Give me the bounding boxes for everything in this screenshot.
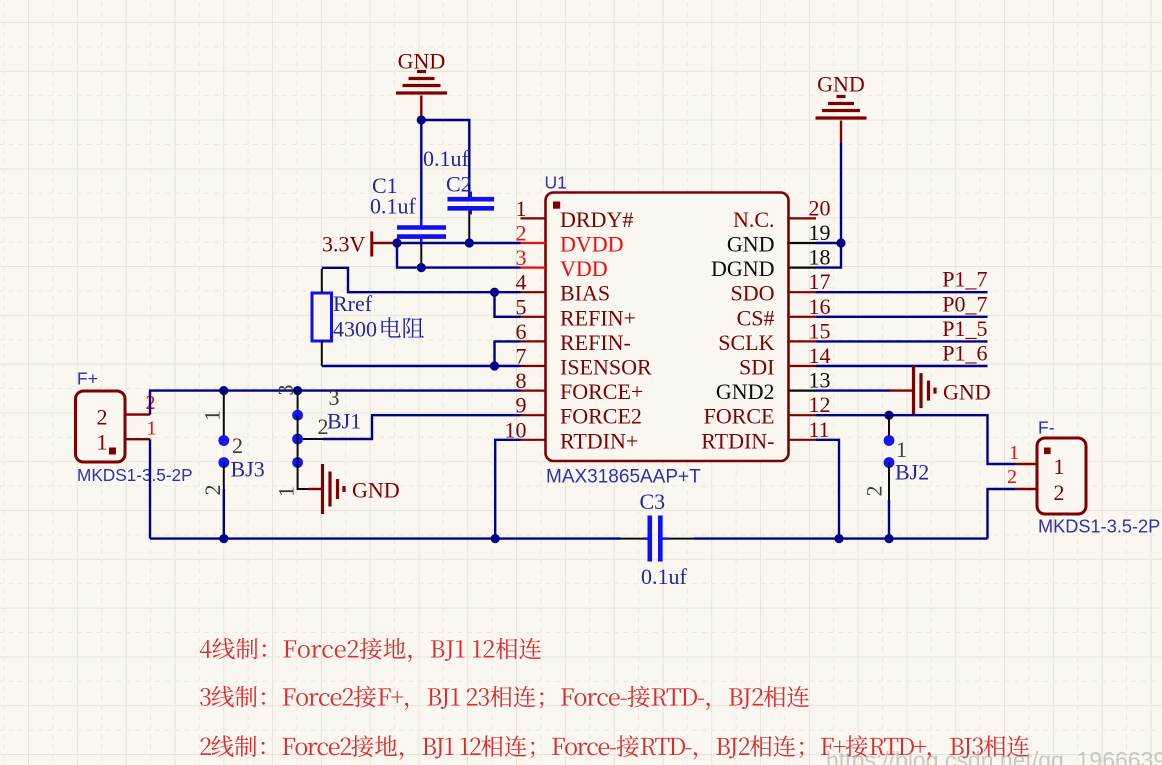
junction pin11/bottom rail bbox=[834, 534, 843, 543]
U1 pin 10 RTDIN+ bbox=[505, 417, 639, 453]
junction BJ1 top bbox=[293, 386, 302, 395]
U1 pin 17 SDO bbox=[730, 269, 830, 306]
svg-text:3: 3 bbox=[329, 385, 340, 410]
svg-text:DVDD: DVDD bbox=[560, 232, 624, 257]
power port 3.3V bbox=[322, 231, 394, 256]
BJ2 pin number 1 bbox=[896, 437, 907, 462]
net label P1_6 bbox=[942, 341, 987, 366]
svg-text:2: 2 bbox=[1054, 480, 1065, 505]
wire pin 16 to net P0_7 bbox=[816, 316, 988, 318]
connector F+ MKDS1-3.5-2P bbox=[76, 391, 151, 462]
wire branch to pin 3 VDD bbox=[397, 243, 521, 268]
U1 pin 7 ISENSOR bbox=[516, 344, 653, 380]
U1 pin 2 DVDD bbox=[516, 221, 624, 257]
junction pin 19 GND bbox=[836, 238, 845, 247]
F- pin number 2 bbox=[1007, 466, 1017, 488]
op-amp/converter IC U1 MAX31865AAP+T body bbox=[546, 193, 789, 462]
svg-text:6: 6 bbox=[516, 319, 527, 344]
svg-text:REFIN+: REFIN+ bbox=[560, 305, 636, 330]
BJ1 pin number 2 bbox=[318, 414, 329, 439]
U1 pin 5 REFIN+ bbox=[516, 294, 636, 330]
svg-text:12: 12 bbox=[809, 392, 831, 417]
svg-text:SDI: SDI bbox=[739, 355, 774, 380]
svg-text:0.1uf: 0.1uf bbox=[641, 564, 688, 589]
svg-text:1: 1 bbox=[97, 430, 108, 455]
watermark csdn blog bbox=[826, 747, 1162, 765]
wire F+ pin2 to FORCE+ pin 8 bbox=[150, 391, 521, 415]
F+ pin number 1 bbox=[147, 418, 157, 440]
svg-text:GND: GND bbox=[352, 478, 400, 503]
svg-text:3: 3 bbox=[273, 385, 298, 396]
svg-text:FORCE+: FORCE+ bbox=[560, 379, 643, 404]
svg-text:1: 1 bbox=[896, 437, 907, 462]
svg-text:C3: C3 bbox=[640, 489, 666, 514]
resistor Rref 4300 bbox=[312, 269, 373, 366]
svg-text:VDD: VDD bbox=[560, 256, 608, 281]
svg-text:GND: GND bbox=[727, 232, 775, 257]
U1 pin 16 CS# bbox=[737, 294, 831, 331]
wire branch to REFIN+ pin 5 bbox=[495, 292, 521, 317]
junction BJ3 bottom rail bbox=[219, 534, 228, 543]
junction C2 bottom bbox=[465, 238, 474, 247]
junction BJ3 top bbox=[219, 386, 228, 395]
wire pin 11 RTDIN- to bottom rail bbox=[816, 440, 839, 539]
svg-text:CS#: CS# bbox=[737, 305, 775, 330]
note line 1: 4-wire config bbox=[200, 638, 541, 662]
svg-text:2: 2 bbox=[200, 485, 225, 496]
ground symbol GND at pin 13 bbox=[914, 366, 991, 416]
svg-text:MKDS1-3.5-2P: MKDS1-3.5-2P bbox=[77, 465, 193, 485]
svg-text:8: 8 bbox=[516, 368, 527, 393]
wire Rref bottom to ISENSOR pin 7 bbox=[322, 365, 521, 367]
svg-text:1: 1 bbox=[1009, 442, 1019, 464]
note line 2: 3-wire config bbox=[200, 686, 809, 710]
U1 pin 11 RTDIN- bbox=[701, 417, 829, 454]
svg-text:1: 1 bbox=[1054, 454, 1065, 479]
svg-text:15: 15 bbox=[809, 318, 831, 343]
svg-text:https://blog.csdn.net/qq_19666: https://blog.csdn.net/qq_1966639 bbox=[826, 747, 1162, 765]
wire BJ1 middle to FORCE2 pin 9 bbox=[303, 415, 521, 439]
svg-text:0.1uf: 0.1uf bbox=[370, 194, 417, 219]
note line 3: 2-wire config bbox=[201, 735, 1030, 759]
svg-text:F+: F+ bbox=[77, 369, 98, 389]
designator BJ3 bbox=[231, 457, 265, 482]
wire F+ pin1 down to bottom rail bbox=[149, 439, 151, 538]
svg-text:RTDIN+: RTDIN+ bbox=[560, 428, 638, 453]
svg-text:U1: U1 bbox=[545, 173, 567, 193]
svg-text:2: 2 bbox=[1007, 466, 1017, 488]
BJ1 pin number 1 (rotated) bbox=[273, 486, 298, 497]
BJ3 pin number 2 bbox=[232, 433, 243, 458]
svg-text:13: 13 bbox=[809, 368, 831, 393]
svg-text:N.C.: N.C. bbox=[733, 207, 775, 232]
svg-text:2: 2 bbox=[516, 221, 527, 246]
svg-text:FORCE2: FORCE2 bbox=[560, 404, 642, 429]
svg-text:RTDIN-: RTDIN- bbox=[701, 428, 774, 453]
svg-text:18: 18 bbox=[809, 245, 831, 270]
svg-text:19: 19 bbox=[809, 220, 831, 245]
U1 pin 19 GND bbox=[727, 220, 831, 257]
designator F+ bbox=[77, 369, 98, 389]
BJ1 pin number 3 (rotated) bbox=[273, 385, 298, 396]
wire BJ2 to bottom rail bbox=[888, 500, 890, 539]
U1 pin 13 GND2 bbox=[716, 368, 831, 405]
svg-text:9: 9 bbox=[516, 393, 527, 418]
svg-text:ISENSOR: ISENSOR bbox=[560, 355, 652, 380]
part number MAX31865AAP+T bbox=[546, 467, 701, 488]
svg-text:GND: GND bbox=[817, 72, 865, 97]
U1 pin 1 DRDY# bbox=[516, 196, 634, 232]
svg-text:MKDS1-3.5-2P: MKDS1-3.5-2P bbox=[1038, 517, 1160, 537]
svg-text:SDO: SDO bbox=[730, 281, 774, 306]
junction 3.3V tee bbox=[392, 238, 401, 247]
part label MKDS1-3.5-2P (right) bbox=[1038, 517, 1160, 537]
net label P1_5 bbox=[942, 316, 987, 341]
wire pin 13 GND2 to ground bbox=[816, 389, 912, 391]
svg-text:GND2: GND2 bbox=[716, 379, 775, 404]
svg-text:GND: GND bbox=[943, 380, 991, 405]
designator BJ1 bbox=[327, 409, 361, 434]
svg-text:0.1uf: 0.1uf bbox=[423, 146, 470, 171]
U1 pin 18 DGND bbox=[711, 245, 831, 282]
connector F- MKDS1-3.5-2P bbox=[1015, 438, 1086, 514]
svg-text:10: 10 bbox=[505, 417, 527, 442]
capacitor C3 0.1uf bbox=[621, 489, 695, 589]
ground symbol GND top-right bbox=[816, 72, 867, 119]
svg-text:1: 1 bbox=[273, 486, 298, 497]
svg-text:MAX31865AAP+T: MAX31865AAP+T bbox=[546, 467, 701, 488]
BJ1 pin number 3 bbox=[329, 385, 340, 410]
svg-text:REFIN-: REFIN- bbox=[560, 330, 631, 355]
svg-text:DRDY#: DRDY# bbox=[560, 207, 633, 232]
wire pin 15 to net P1_5 bbox=[816, 340, 988, 342]
wire F- pin 2 to bottom rail bbox=[988, 489, 1016, 539]
wire pin 14 to net P1_6 bbox=[816, 365, 988, 367]
svg-text:P1_7: P1_7 bbox=[942, 267, 987, 292]
bottom rail wire RTDIN+ bbox=[150, 537, 988, 539]
svg-text:F-: F- bbox=[1038, 418, 1055, 438]
U1 pin 4 BIAS bbox=[516, 270, 611, 306]
svg-text:2: 2 bbox=[862, 486, 887, 497]
svg-text:BJ2: BJ2 bbox=[895, 460, 929, 485]
svg-text:2: 2 bbox=[232, 433, 243, 458]
svg-text:7: 7 bbox=[516, 344, 527, 369]
svg-text:P0_7: P0_7 bbox=[942, 291, 987, 316]
svg-text:1: 1 bbox=[199, 410, 224, 421]
svg-text:C2: C2 bbox=[446, 172, 472, 197]
U1 pin 14 SDI bbox=[739, 343, 830, 380]
svg-text:5: 5 bbox=[516, 294, 527, 319]
part label MKDS1-3.5-2P (left) bbox=[77, 465, 193, 485]
jumper BJ3 bbox=[218, 391, 229, 489]
svg-text:17: 17 bbox=[809, 269, 831, 294]
wire pin 12 FORCE to F- pin 1 bbox=[816, 415, 1015, 464]
wire branch to REFIN- pin 6 bbox=[495, 341, 521, 366]
junction BIAS/REFIN+ bbox=[490, 288, 499, 297]
svg-text:1: 1 bbox=[147, 418, 157, 440]
svg-text:BJ1: BJ1 bbox=[327, 409, 361, 434]
junction C1 bottom bbox=[417, 263, 426, 272]
svg-text:BIAS: BIAS bbox=[560, 281, 610, 306]
svg-text:Rref: Rref bbox=[333, 291, 373, 316]
svg-text:4: 4 bbox=[516, 270, 527, 295]
F- pin number 1 bbox=[1009, 442, 1019, 464]
value label 4300 (electric resistance) bbox=[333, 317, 424, 342]
wire BJ3 to bottom rail bbox=[223, 489, 225, 539]
U1 pin 6 REFIN- bbox=[516, 319, 631, 355]
junction BJ2 top bbox=[884, 411, 893, 420]
capacitor C2 0.1uf bbox=[421, 120, 494, 243]
U1 pin 8 FORCE+ bbox=[516, 368, 644, 404]
wire pin 17 to net P1_7 bbox=[816, 291, 988, 293]
svg-text:GND: GND bbox=[398, 48, 446, 73]
junction REFIN-/ISENSOR bbox=[490, 361, 499, 370]
svg-text:20: 20 bbox=[809, 195, 831, 220]
net label P1_7 bbox=[942, 267, 987, 292]
designator F- bbox=[1038, 418, 1055, 438]
U1 pin 12 FORCE bbox=[704, 392, 831, 429]
U1 pin 9 FORCE2 bbox=[516, 393, 642, 429]
svg-text:14: 14 bbox=[809, 343, 831, 368]
svg-text:P1_6: P1_6 bbox=[942, 341, 987, 366]
BJ3 pin number 1 (rotated) bbox=[199, 410, 224, 421]
junction C1/C2 ground node bbox=[417, 115, 426, 124]
svg-text:11: 11 bbox=[809, 417, 830, 442]
svg-text:BJ3: BJ3 bbox=[231, 457, 265, 482]
designator BJ2 bbox=[895, 460, 929, 485]
U1 pin 15 SCLK bbox=[718, 318, 830, 355]
svg-text:3.3V: 3.3V bbox=[322, 232, 366, 257]
BJ2 rotated 2 bbox=[862, 486, 887, 497]
BJ3 rotated 2 bbox=[200, 485, 225, 496]
ground symbol GND top-left bbox=[396, 48, 447, 93]
wire 3.3V to pin 2 DVDD bbox=[394, 242, 521, 244]
svg-text:4300: 4300 bbox=[333, 317, 377, 342]
junction pin10/bottom rail bbox=[491, 534, 500, 543]
svg-text:16: 16 bbox=[809, 294, 831, 319]
capacitor C1 0.1uf bbox=[370, 120, 446, 268]
net label P0_7 bbox=[942, 291, 987, 316]
svg-text:3: 3 bbox=[516, 245, 527, 270]
svg-text:SCLK: SCLK bbox=[718, 330, 774, 355]
svg-text:DGND: DGND bbox=[711, 256, 775, 281]
U1 pin 3 VDD bbox=[516, 245, 608, 281]
F+ pin number 2 bbox=[146, 392, 156, 414]
ground symbol GND at BJ1 bbox=[308, 464, 400, 514]
wire ground to C1/C2 node bbox=[420, 96, 422, 121]
svg-text:1: 1 bbox=[516, 196, 527, 221]
junction BJ2 bottom rail bbox=[884, 534, 893, 543]
svg-text:FORCE: FORCE bbox=[704, 404, 775, 429]
designator U1 bbox=[545, 173, 567, 193]
U1 pin 20 N.C. bbox=[733, 195, 831, 232]
jumper BJ2 bbox=[884, 415, 895, 500]
wire ground to pins 19/18 bbox=[816, 121, 841, 268]
svg-text:2: 2 bbox=[97, 405, 108, 430]
wire pin 10 RTDIN+ bbox=[495, 440, 520, 539]
jumper BJ1 bbox=[292, 391, 308, 489]
wire Rref top to BIAS pin 4 bbox=[322, 268, 521, 292]
svg-text:P1_5: P1_5 bbox=[942, 316, 987, 341]
